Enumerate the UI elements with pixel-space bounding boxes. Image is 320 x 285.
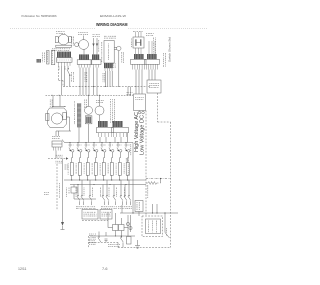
relay box R3a xyxy=(113,225,119,231)
CB2 wire drops xyxy=(79,68,81,96)
bus y95 junction dots xyxy=(52,95,53,96)
header dotted rule right xyxy=(129,27,209,29)
valve C6 top wire xyxy=(99,95,101,106)
wire labels left xyxy=(71,72,73,73)
svg-text:Low Voltage DC: Low Voltage DC xyxy=(139,115,145,155)
R3 wires down xyxy=(115,231,117,237)
lower cluster 1 xyxy=(77,185,79,196)
M2 label xyxy=(77,31,80,33)
drum motor M3 housing xyxy=(48,108,67,128)
TB corner marks xyxy=(166,228,168,229)
control board U1 left label xyxy=(101,42,103,44)
connector C4 pins xyxy=(146,64,148,69)
thermo cluster marks xyxy=(56,154,57,156)
box MB2 xyxy=(135,201,143,212)
text col right of bus xyxy=(130,143,132,146)
U1 drop labels xyxy=(102,73,104,74)
K2 riser wires xyxy=(127,87,129,96)
C6 hatch H1 xyxy=(98,121,108,127)
motor M2 body xyxy=(79,40,89,50)
diode box pins xyxy=(93,64,95,67)
valve C6 circle xyxy=(95,106,104,115)
C6 label xyxy=(96,99,97,101)
connector K2 xyxy=(112,128,129,133)
switch S8 xyxy=(125,143,127,148)
HV cluster marks xyxy=(127,92,128,94)
relay box B xyxy=(134,94,146,111)
TB right wire xyxy=(164,213,166,233)
motor M2 small circle xyxy=(75,43,79,47)
U1 pin hatch xyxy=(104,63,113,68)
connector CB2 box xyxy=(77,60,92,65)
box A internal marks xyxy=(148,83,151,85)
C3 relay internals xyxy=(135,39,137,46)
lower cluster 2 xyxy=(102,185,104,196)
ground symbol xyxy=(137,240,139,246)
C3 wires xyxy=(135,48,137,54)
switch S5 xyxy=(101,143,103,148)
connector C4 hatch xyxy=(147,54,157,59)
M1 right label col xyxy=(71,37,73,39)
C3 top label xyxy=(133,30,135,32)
bus1 junction dots xyxy=(69,142,70,143)
M2 top wire xyxy=(83,36,85,40)
connector C3 relay box xyxy=(133,37,144,48)
heater element E1 xyxy=(77,104,81,128)
left solid wire xyxy=(62,159,64,223)
right margin pin labels xyxy=(163,53,165,55)
partition dash-dot y178 xyxy=(146,178,171,180)
neutral dashed wire xyxy=(56,164,58,210)
M3 right tab xyxy=(63,113,67,120)
left edge mark xyxy=(37,59,42,63)
load L2 xyxy=(78,163,81,176)
partition junction dot xyxy=(160,178,161,179)
bottom part labels xyxy=(108,244,109,246)
bus A junction dots xyxy=(71,179,72,180)
drum motor M3 top wires xyxy=(52,95,54,106)
bus C junction dots xyxy=(132,212,133,213)
load L8 xyxy=(126,163,129,176)
lower band labels xyxy=(66,187,68,190)
G1 wires xyxy=(73,185,75,188)
CB1 pins xyxy=(58,62,60,66)
diode D1 xyxy=(93,38,95,54)
M1 left tab xyxy=(55,37,58,43)
left connector CL box xyxy=(52,141,62,147)
M2 stub xyxy=(83,49,85,54)
bus B y184.5 xyxy=(70,184,146,186)
connector C3 box xyxy=(131,59,147,64)
bus y86 junction dots xyxy=(80,86,81,87)
load L4 drop xyxy=(95,175,97,180)
CB1 wire drops xyxy=(61,66,63,96)
bottom cluster blob xyxy=(89,233,90,235)
lower cluster 3 xyxy=(120,180,122,195)
bottom part at x106 xyxy=(105,232,107,236)
M3 rotor circle xyxy=(51,113,62,124)
C3 left edge labels xyxy=(131,39,133,40)
connector K1 xyxy=(97,128,114,133)
C4 wire drops xyxy=(148,70,150,81)
pump C5 body xyxy=(85,116,92,124)
diode wire drops xyxy=(93,68,95,96)
load L7 drop xyxy=(119,175,121,180)
pump C5 top wire xyxy=(88,95,90,106)
C5 label xyxy=(84,100,86,101)
C3 wire drops xyxy=(135,70,137,95)
M1 right tab xyxy=(68,37,71,43)
relay strip P1b xyxy=(51,50,54,64)
bottom dashed vertical xyxy=(88,236,90,248)
cluster 1 dashed base xyxy=(82,220,108,222)
MB2 stub xyxy=(138,212,140,217)
cluster 2 label box xyxy=(100,210,112,220)
load L8 drop xyxy=(127,175,129,180)
R1 to junction xyxy=(159,182,162,184)
switch S1 xyxy=(69,143,71,148)
U1 top label xyxy=(104,35,106,37)
BZ1 labels xyxy=(121,52,123,54)
load L3 drop xyxy=(87,175,89,180)
cabinet bottom dashed left xyxy=(89,242,119,244)
connector CB1 box xyxy=(56,58,72,62)
bottom part at x121 xyxy=(121,236,122,237)
diode box xyxy=(91,60,101,65)
diode D2 xyxy=(96,38,98,54)
header dotted rule left xyxy=(10,27,95,29)
cabinet bottom jog xyxy=(117,243,119,248)
CB2 pins xyxy=(78,64,80,67)
svg-text:12/11: 12/11 xyxy=(18,267,27,271)
box B internal marks xyxy=(135,97,136,99)
wire x133 to bus C xyxy=(132,143,134,214)
small box G1 xyxy=(71,187,77,193)
thermo dashed arrow line xyxy=(48,158,66,160)
U1 internal text xyxy=(108,43,110,46)
pump C5 circle xyxy=(85,106,93,114)
R3 feed wires up xyxy=(115,213,117,225)
cabinet dashed jog y122 xyxy=(158,121,171,123)
BZ1 wire down xyxy=(118,51,120,87)
left wire labels xyxy=(125,158,127,160)
load L6 xyxy=(110,163,113,176)
door switch xyxy=(67,66,69,68)
cabinet dashed vertical x157 xyxy=(157,93,159,122)
load L1 drop xyxy=(71,175,73,180)
TB text columns xyxy=(148,221,150,222)
relay box R3b xyxy=(119,225,125,231)
load L3 xyxy=(86,163,89,176)
C5 wire down xyxy=(88,124,90,143)
TB corner diagonal xyxy=(165,233,170,239)
CB1 dashed drop xyxy=(58,66,60,81)
M3 top bus xyxy=(52,106,65,108)
terminal block TB dashed outline xyxy=(142,216,163,237)
M3 drops to CL xyxy=(55,131,57,136)
bus B dots xyxy=(77,184,78,185)
M3 output wire right xyxy=(67,116,70,118)
bus A y180 xyxy=(64,179,146,181)
M3 label xyxy=(49,99,51,102)
dotted bus y95 xyxy=(46,94,134,96)
TB inner box xyxy=(146,219,161,234)
bottom part at x99 xyxy=(98,232,100,237)
load L6 drop xyxy=(111,175,113,180)
load L4 xyxy=(94,163,97,176)
left connector CL marks xyxy=(52,136,54,138)
load L7 xyxy=(118,163,121,176)
cabinet bottom dashed right xyxy=(118,247,171,249)
neutral label xyxy=(59,183,61,184)
U1 right wires xyxy=(114,46,117,48)
left wires x130.5 xyxy=(130,215,132,232)
diode labels xyxy=(98,40,100,41)
connector C3 pins xyxy=(132,64,134,69)
M3 bottom bus xyxy=(56,130,71,132)
connector C3 hatch xyxy=(134,54,144,59)
bus C stubs xyxy=(152,204,154,213)
bus C y213 xyxy=(120,212,178,214)
connector CB1 hatch block xyxy=(57,52,71,58)
U1 pins xyxy=(104,68,106,71)
wire labels mid xyxy=(84,71,86,74)
control board U1 xyxy=(104,41,114,64)
K2 drops xyxy=(114,137,116,143)
hatch H2 xyxy=(113,121,123,127)
connector CB2 hatch block xyxy=(79,54,89,59)
C6 stub xyxy=(99,115,101,121)
load L2 drop xyxy=(79,175,81,180)
svg-text:Publication No: 5995526066: Publication No: 5995526066 xyxy=(22,14,57,18)
svg-text:EDM40-L24S-W: EDM40-L24S-W xyxy=(100,14,126,18)
connector C4 labels xyxy=(146,33,147,35)
fuse part left of TB xyxy=(126,222,129,225)
dashed corner down xyxy=(62,81,64,87)
bus left joint xyxy=(62,140,65,143)
M3 left tab xyxy=(46,114,49,121)
box B terminal circles xyxy=(138,111,141,114)
CB1 box midline xyxy=(58,59,71,61)
fan motor M1 body xyxy=(58,34,69,45)
svg-text:WIRING DIAGRAM: WIRING DIAGRAM xyxy=(96,22,128,27)
load L5 xyxy=(102,163,105,176)
K1 wire drops xyxy=(99,137,101,143)
bus C riser x122 xyxy=(121,205,123,213)
fuse arrow device xyxy=(61,222,64,226)
buzzer BZ1 xyxy=(117,46,121,50)
svg-text:7-6: 7-6 xyxy=(102,267,108,271)
M1 base bar xyxy=(56,45,71,47)
dashed bus y86 xyxy=(63,86,147,88)
connector C4 box xyxy=(145,59,160,64)
tiny label mid-left xyxy=(44,192,45,194)
dashed jog xyxy=(59,80,64,82)
svg-text:Switch Shown Std: Switch Shown Std xyxy=(168,37,172,62)
diode hatch block xyxy=(92,54,99,59)
connector C3 top wires xyxy=(135,32,137,37)
switch S6 xyxy=(109,143,111,148)
K2 pins xyxy=(113,133,115,137)
heater E1 label xyxy=(73,100,75,103)
E1 wire down xyxy=(78,127,80,143)
text column T5 xyxy=(110,99,112,100)
left wires x128 xyxy=(127,215,129,236)
h line y199 xyxy=(74,198,96,200)
switch row edge labels xyxy=(65,164,67,166)
K1 pins xyxy=(98,133,100,137)
load L5 drop xyxy=(103,175,105,180)
U1 pin marks xyxy=(112,63,114,64)
bottom solid line y236 xyxy=(90,235,135,237)
load L1 xyxy=(70,163,73,176)
cluster 1 label boxes xyxy=(82,210,98,220)
switch S2 xyxy=(77,143,79,148)
C4 vertical label col xyxy=(153,38,155,40)
diode top labels xyxy=(93,33,94,35)
fan motor M1 label xyxy=(56,31,57,33)
connector C4 top wires xyxy=(148,41,150,54)
resistor R1 xyxy=(146,182,158,185)
cabinet dashed vertical x170 xyxy=(170,122,172,248)
relay strip P1a xyxy=(47,51,49,65)
CB1 pin labels xyxy=(58,66,60,69)
CL drop xyxy=(55,151,57,159)
switch S7 xyxy=(117,143,119,148)
label next to dashed partition xyxy=(147,185,149,187)
R3 side wires xyxy=(108,227,113,229)
bottom part at x127 xyxy=(127,237,132,245)
relay box A xyxy=(147,80,161,93)
U1 wire drops xyxy=(105,71,107,87)
switch S4 xyxy=(93,143,95,148)
switch S3 xyxy=(85,143,87,148)
CL pins xyxy=(53,147,55,151)
M1 label row xyxy=(52,48,53,50)
vertical x108 to R3 xyxy=(107,213,109,228)
switch bus y142 xyxy=(65,142,134,144)
HV boundary dashed vertical xyxy=(145,111,147,217)
P1 side label xyxy=(42,53,44,54)
